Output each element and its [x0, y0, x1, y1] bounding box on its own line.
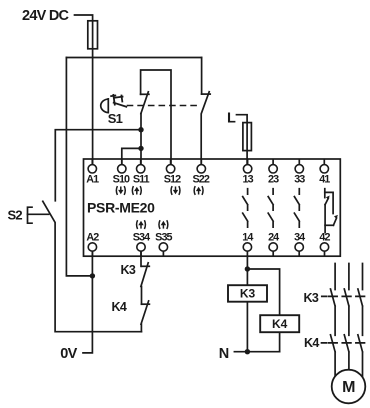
- svg-text:K3: K3: [121, 263, 136, 277]
- svg-text:34: 34: [294, 232, 305, 244]
- svg-text:S12: S12: [164, 174, 181, 186]
- svg-text:23: 23: [268, 174, 279, 186]
- svg-text:42: 42: [319, 232, 330, 244]
- svg-text:N: N: [219, 346, 229, 362]
- svg-text:PSR-ME20: PSR-ME20: [87, 200, 155, 216]
- svg-text:S11: S11: [133, 174, 150, 186]
- svg-text:A2: A2: [86, 232, 99, 244]
- svg-text:K4: K4: [272, 317, 288, 331]
- svg-text:K3: K3: [240, 287, 256, 301]
- svg-text:S10: S10: [113, 174, 130, 186]
- svg-text:S22: S22: [192, 174, 209, 186]
- svg-text:S35: S35: [155, 232, 172, 244]
- svg-text:S34: S34: [133, 232, 150, 244]
- svg-text:M: M: [342, 379, 355, 396]
- svg-text:14: 14: [242, 232, 253, 244]
- svg-text:24V DC: 24V DC: [22, 8, 70, 24]
- svg-text:41: 41: [319, 174, 330, 186]
- svg-text:K4: K4: [304, 336, 319, 350]
- svg-text:24: 24: [268, 232, 279, 244]
- svg-text:33: 33: [294, 174, 305, 186]
- svg-text:0V: 0V: [60, 346, 77, 362]
- svg-text:K4: K4: [112, 300, 127, 314]
- svg-text:13: 13: [242, 174, 253, 186]
- svg-text:K3: K3: [304, 291, 319, 305]
- svg-text:A1: A1: [86, 174, 99, 186]
- svg-text:S2: S2: [8, 208, 23, 223]
- svg-text:S1: S1: [108, 111, 123, 126]
- svg-text:L: L: [227, 110, 236, 126]
